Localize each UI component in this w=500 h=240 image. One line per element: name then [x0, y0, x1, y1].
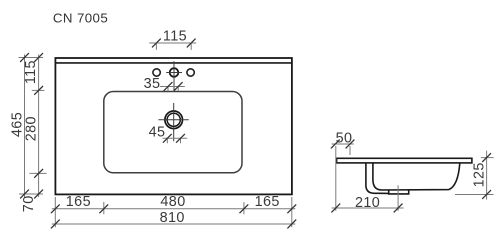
front rim line [55, 62, 292, 64]
dim 35 faucet hole dia [160, 86, 185, 88]
faucet hole left [153, 69, 160, 76]
svg-text:CN 7005: CN 7005 [53, 11, 108, 26]
extension lines left [19, 57, 44, 59]
svg-text:125: 125 [471, 162, 487, 187]
left dim lines 465 and 115/280/70 [24, 55, 26, 198]
svg-text:70: 70 [21, 195, 37, 212]
faucet hole center [170, 68, 179, 77]
ticks left [20, 53, 29, 62]
dim 210 [335, 146, 337, 211]
svg-text:165: 165 [255, 194, 280, 210]
faucet center crosshair [173, 61, 175, 91]
dim 115 faucet spacing [149, 42, 196, 44]
bowl outline [104, 92, 242, 173]
drain crosshair [173, 103, 175, 141]
drain fitting [389, 190, 409, 194]
svg-text:280: 280 [24, 116, 40, 141]
svg-text:810: 810 [160, 210, 185, 226]
svg-text:115: 115 [163, 28, 187, 44]
svg-text:115: 115 [23, 60, 39, 84]
svg-text:210: 210 [355, 195, 380, 211]
faucet hole right [187, 69, 194, 76]
basin top-view outline [55, 58, 292, 194]
basin inner wall, bottom and right curve [373, 163, 460, 190]
dim 125 [486, 151, 488, 200]
svg-text:50: 50 [336, 131, 353, 147]
countertop slab [337, 158, 472, 163]
bottom dims 165/480/165 and 810 [54, 197, 56, 227]
svg-text:35: 35 [144, 76, 161, 92]
svg-text:45: 45 [149, 124, 166, 140]
basin outer left wall [366, 163, 389, 194]
dim 45 drain dia [163, 137, 188, 139]
svg-text:480: 480 [160, 194, 185, 210]
svg-text:165: 165 [66, 194, 91, 210]
drain hole [165, 111, 183, 129]
dim 50 [332, 143, 354, 145]
